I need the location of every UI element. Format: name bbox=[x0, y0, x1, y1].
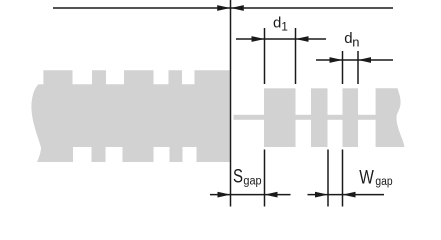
svg-text:gap: gap bbox=[243, 175, 261, 187]
svg-text:d: d bbox=[273, 15, 281, 32]
svg-text:gap: gap bbox=[375, 176, 392, 188]
svg-text:W: W bbox=[359, 167, 374, 189]
svg-text:d: d bbox=[344, 30, 352, 47]
svg-text:S: S bbox=[233, 167, 243, 188]
svg-text:n: n bbox=[352, 35, 359, 50]
svg-text:1: 1 bbox=[281, 20, 288, 34]
